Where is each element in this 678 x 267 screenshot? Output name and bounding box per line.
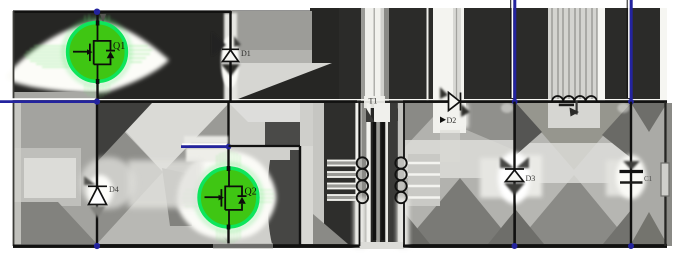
wire: Q1 column: [96, 11, 98, 102]
wire: mid-left probe wire blue with highlight: [0, 98, 95, 100]
wire: D1 column: [229, 12, 231, 102]
glow: D1 column: [224, 13, 237, 101]
node: junction dot mid rail / Q1 source / D4 cathode: [94, 99, 100, 105]
cell E shading (97-228,103-244): [97, 103, 229, 244]
wire: mid rail black: [97, 100, 357, 103]
MOSFET Q2 symbol: [205, 169, 247, 227]
wire: bottom rail left: [13, 245, 360, 248]
cell K shading (404-514,103-244): [404, 103, 514, 244]
node: blue dot on Q2 drain: [226, 144, 232, 150]
node: junction dot bottom rail / C1 bottom: [628, 243, 634, 249]
transformer zone below rail (350-410, 103-244): [350, 103, 412, 244]
svg-text:D1: D1: [241, 49, 251, 58]
wire: D3 column: [513, 102, 515, 246]
white highlight line above mid rail: [97, 99, 667, 101]
glow: D2 label area below rail: [438, 104, 468, 128]
wire: bottom rail right: [403, 245, 667, 248]
svg-text:D2: D2: [447, 116, 457, 125]
glow: green streaks around Q1: [24, 46, 152, 67]
diode D2 (horizontal on secondary rail): [449, 93, 461, 111]
glow: white blob around Q2: [177, 151, 276, 239]
wire: D4 column: [96, 102, 98, 246]
wire: C1 column: [630, 102, 632, 246]
glow: D3: [480, 158, 515, 198]
cell L shading (516-631,103-244): [516, 103, 631, 244]
wire: left border vertical: [13, 11, 15, 246]
node: junction dot top rail / Q1 drain: [94, 9, 100, 15]
wire: secondary top rail: [403, 100, 667, 103]
glow: D4: [80, 157, 136, 209]
light zone between gate wire and Q2 halo: [186, 148, 228, 162]
node: junction dot bottom rail / D4 anode: [94, 243, 100, 249]
thin gray streak lines above inductor coil: [552, 8, 597, 100]
blue probe line at x=631: [626, 0, 628, 98]
MOSFET Q2 highlight circle: [199, 168, 258, 227]
glow: white lens around Q1: [6, 21, 169, 93]
wash of bottom rail under Q2 glow: [213, 243, 273, 249]
diode D3: [500, 157, 514, 168]
diode D4: [84, 176, 96, 185]
svg-text:D4: D4: [109, 185, 119, 194]
svg-text:Q1: Q1: [113, 41, 125, 52]
current arrow near Q1 drain: [100, 14, 106, 23]
right border / load column: [664, 102, 666, 246]
label L1 marks: [559, 104, 574, 107]
diode D1: [222, 49, 239, 61]
green streaks around Q2: [182, 151, 274, 244]
zone above secondary rail: dark blocks and glow columns (404-667, 8-101): [404, 8, 667, 101]
svg-text:C1: C1: [644, 175, 653, 183]
streaks left of primary loops: [327, 160, 358, 201]
white wash over rail at core zone: [364, 96, 385, 108]
MOSFET Q1 highlight circle: [68, 23, 127, 82]
cell C overlays (region right of D1, 231-360, 8-101): [231, 11, 332, 99]
Q2 terminal blobs: [227, 166, 231, 171]
glow: C1: [606, 160, 632, 196]
glow bridge between D4 and Q2: [128, 160, 203, 208]
capacitor C1 plates: [623, 161, 640, 170]
D2 bevel wedges: [440, 87, 448, 99]
label D2 with arrow: [440, 117, 446, 124]
wire: Q2 column: [227, 102, 229, 246]
Q1 terminal blobs: [96, 21, 100, 26]
gray band under Q1 lens: [13, 92, 97, 100]
glow spots under probe dots: [501, 103, 513, 113]
region between Q2 and transformer (229-360, 103-244): [229, 103, 360, 244]
cell M shading (631-667,103-244): [631, 103, 672, 246]
transformer zone bands above rail (339-404, 8-101): [339, 8, 404, 101]
MOSFET Q1 symbol: [73, 23, 115, 81]
transformer T1 primary winding: [357, 102, 368, 246]
svg-text:D3: D3: [526, 174, 536, 183]
wire: top rail: [13, 10, 231, 13]
inductor L1 coil: [552, 96, 597, 102]
svg-text:T1: T1: [369, 97, 378, 106]
node: junction dot mid rail / C1 top: [628, 99, 634, 105]
glow: under transformer windings: [354, 198, 366, 248]
glow above Q2 gate wire: [184, 136, 228, 144]
transformer core bars: [373, 122, 376, 240]
blue probe line at x=514.5: [510, 0, 512, 98]
cell D shading (lower-left cell 13-97,103-244): [13, 103, 97, 245]
node dot (514.5,101.5): [512, 99, 518, 105]
wire: Q2 gate probe blue: [182, 143, 227, 145]
node dot bottom (514.5,246): [512, 243, 518, 249]
svg-text:Q2: Q2: [245, 187, 257, 198]
transformer T1 secondary winding: [395, 102, 406, 246]
wire: from Q2 drain dot to x=300 then down: [229, 145, 301, 147]
streaks right of secondary loops: [408, 154, 440, 206]
resistor R1: [661, 163, 669, 196]
